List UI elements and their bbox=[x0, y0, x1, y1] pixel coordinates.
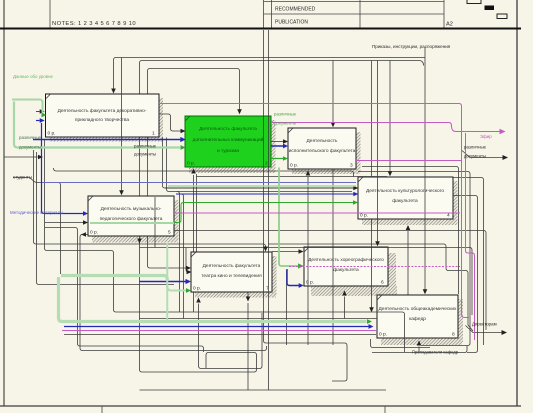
activity box A26 Деятельность хореографического факультета bbox=[304, 247, 388, 286]
wire blue main into A22 left bbox=[33, 137, 186, 142]
header RECOMMENDED row bbox=[275, 7, 316, 13]
wire below A28 rail 1 bbox=[371, 339, 431, 348]
wire mechanism up into A22 bottom bbox=[193, 175, 195, 312]
wire y=247 segment bbox=[140, 248, 473, 316]
activity box A25 shadow bbox=[92, 200, 179, 243]
header A2 node label bbox=[446, 22, 453, 28]
label data level green bbox=[13, 74, 53, 79]
activity box A27 shadow bbox=[195, 256, 277, 298]
wire control top into A21 bbox=[114, 58, 426, 89]
wire magenta rail y=266 dotted bbox=[289, 266, 460, 268]
svg-text:Директорам: Директорам bbox=[472, 322, 497, 327]
header divider at x=50 bbox=[49, 0, 51, 28]
svg-text:3: 3 bbox=[350, 163, 353, 169]
wire blue into A28 left bbox=[64, 324, 374, 329]
sheet frame right border bbox=[516, 0, 518, 406]
svg-text:Эфир: Эфир bbox=[480, 134, 492, 139]
wire blue methodical into A25 left bbox=[42, 123, 89, 216]
label various documents green mid bbox=[274, 112, 297, 126]
svg-text:0 р.: 0 р. bbox=[48, 131, 56, 137]
svg-text:6: 6 bbox=[381, 280, 384, 286]
header context thumbnail child box bbox=[497, 14, 507, 19]
wire A21 output to A22 left bbox=[159, 114, 181, 131]
arrowhead down x=371 bbox=[369, 307, 374, 312]
bottom frame tick right bbox=[384, 406, 386, 413]
activity box A28 Деятельность общеакадемических кафедр bbox=[377, 295, 458, 338]
wire magenta A23 output y=160 bbox=[356, 160, 461, 162]
arrowhead into A28 top bbox=[423, 289, 428, 294]
wire output right various documents bbox=[462, 151, 503, 158]
wire black into A21 left bbox=[36, 109, 45, 114]
activity box A21 Деятельность факультета декоративно-прикладного творчества bbox=[46, 94, 160, 137]
wire boundary vertical x=263 to bottom rail bbox=[264, 30, 348, 381]
arrowhead A21 to A22 bbox=[181, 129, 186, 134]
wire A23 output second bbox=[453, 178, 484, 346]
label various documents left bbox=[19, 135, 42, 150]
svg-text:Деятельность факультета: Деятельность факультета bbox=[199, 126, 257, 132]
wire magenta rail y=214 bbox=[174, 212, 460, 214]
wire A24 output right drop x=470 bbox=[358, 172, 470, 346]
arrowhead into A25 top bbox=[119, 190, 124, 195]
wire mechanism up into A23 bottom bbox=[307, 177, 309, 346]
wire A23 output right drop x=458 bbox=[362, 167, 459, 295]
wire A24 output right drop x=477 bbox=[453, 196, 478, 353]
wire control into A24 top bbox=[389, 61, 391, 172]
wire below A28 rail 2 bbox=[372, 346, 467, 353]
svg-text:дополнительных коммуникаций: дополнительных коммуникаций bbox=[193, 136, 264, 143]
wire output right to directors bbox=[466, 326, 502, 333]
arrowhead into A21 top bbox=[111, 89, 116, 94]
wire blue into A26 left bbox=[287, 269, 304, 288]
wire A25 output rail y=230 to right drop bbox=[174, 231, 486, 331]
wire left bundle y=284 bbox=[37, 152, 175, 285]
activity box A25 Деятельность музыкально-педагогического факультета bbox=[88, 196, 174, 236]
wire blue pair into A24 left 2 bbox=[176, 192, 358, 197]
wire violet-blue rail y=182.5 bbox=[42, 182, 356, 184]
wire vertical x=286 below A22 bbox=[286, 270, 288, 345]
wire A27 output to A26 left bbox=[272, 251, 299, 253]
wire mechanism up into A24 bottom bbox=[407, 231, 409, 295]
svg-text:0 р.: 0 р. bbox=[90, 230, 98, 236]
wire control into A26 top bbox=[377, 61, 379, 242]
arrowhead output various documents bbox=[503, 155, 509, 160]
arrowhead left input bbox=[38, 155, 43, 160]
arrowhead feedback out of A25 left bbox=[81, 232, 86, 237]
arrowhead into A24 top bbox=[388, 171, 393, 176]
label various documents right bbox=[464, 145, 487, 159]
svg-text:различные: различные bbox=[274, 112, 297, 117]
svg-text:документы: документы bbox=[19, 145, 41, 150]
svg-text:документы: документы bbox=[134, 152, 156, 157]
activity box A22 shadow bbox=[189, 120, 276, 173]
svg-text:Деятельность факультета: Деятельность факультета bbox=[203, 263, 261, 269]
svg-text:документы: документы bbox=[464, 154, 486, 159]
arrowhead mech up A28 bbox=[417, 341, 422, 346]
wire green into A21 left bbox=[12, 100, 47, 118]
svg-text:2: 2 bbox=[265, 161, 268, 167]
wire mechanism loop up into A27 bottom bbox=[199, 304, 263, 369]
wire rail y=176 below A22 bbox=[196, 176, 387, 178]
header bottom heavy line bbox=[0, 28, 521, 30]
svg-text:факультета: факультета bbox=[392, 198, 418, 204]
arrowhead A22 to A23 black bbox=[283, 139, 288, 144]
activity box A23 Деятельность исполнительского факультета bbox=[288, 128, 356, 169]
wire call arrow below A27 bbox=[247, 293, 249, 391]
header context thumbnail top box bbox=[467, 0, 481, 4]
label students left bbox=[13, 175, 32, 180]
sheet frame left border bbox=[3, 0, 5, 406]
wire A21 output stub to green rail bbox=[163, 138, 169, 189]
wire control into A25 top bbox=[121, 58, 123, 191]
wire A22 output to A23 left bbox=[271, 141, 284, 143]
wire vertical x=196 below A22 bbox=[196, 174, 198, 252]
wire boundary vertical x=268 bbox=[268, 30, 270, 390]
wire control long top rail y=60 bbox=[140, 61, 424, 373]
arrowhead mech up A22 bbox=[191, 169, 196, 174]
arrowhead mech up A26 bbox=[342, 291, 347, 296]
svg-text:студенты: студенты bbox=[13, 175, 32, 180]
wire green A22 down to A26 left bbox=[279, 168, 304, 269]
svg-text:1: 1 bbox=[152, 131, 155, 137]
wire blue into A27 left bbox=[140, 279, 192, 284]
arrowhead into A27 left black bbox=[186, 266, 191, 271]
svg-text:0 р.: 0 р. bbox=[306, 280, 314, 286]
svg-text:факультета: факультета bbox=[333, 267, 359, 273]
wire left bundle to A27 top bbox=[34, 150, 474, 331]
wire left input arrow bbox=[4, 156, 38, 158]
svg-text:Данные обо уровне: Данные обо уровне bbox=[13, 74, 53, 79]
wire blue into A21 left bbox=[36, 118, 45, 123]
svg-text:5: 5 bbox=[168, 230, 171, 236]
activity box A28 shadow bbox=[381, 299, 463, 345]
svg-text:Приказы, инструкции, распоряже: Приказы, инструкции, распоряжения bbox=[372, 44, 451, 49]
label efir magenta right bbox=[480, 134, 492, 139]
header NOTES text bbox=[52, 21, 136, 27]
wire mechanism up into A26 bottom bbox=[344, 297, 346, 319]
arrowhead into A23 top bbox=[331, 122, 336, 127]
wire green light below A25 bbox=[166, 243, 168, 321]
wire A21 output rail y=191 bbox=[167, 138, 353, 192]
arrowhead call below A27 bbox=[246, 297, 251, 302]
wire orders control into A28 top bbox=[424, 48, 426, 290]
wire bottom mechanism rail y=390 bbox=[140, 389, 387, 391]
svg-text:RECOMMENDED: RECOMMENDED bbox=[275, 7, 316, 13]
arrowhead call below A25 bbox=[137, 239, 142, 244]
wire into A25 left black bbox=[45, 222, 84, 224]
wire black drop into A27 left y=272 bbox=[186, 248, 192, 275]
wire mid verticals from bundle down bbox=[177, 192, 184, 319]
wire blue A22 to A23 bbox=[271, 144, 288, 149]
svg-text:PUBLICATION: PUBLICATION bbox=[275, 20, 308, 26]
svg-text:театра кино и телевидения: театра кино и телевидения bbox=[201, 274, 262, 279]
label teachers bottom bbox=[412, 350, 459, 355]
wire vertical crossing A25 x=155 bbox=[154, 197, 156, 248]
svg-text:Деятельность: Деятельность bbox=[307, 138, 338, 144]
wire control into A22 top and down-left to A27 left bbox=[148, 69, 240, 269]
wire green hook into A27 left bbox=[167, 286, 191, 293]
svg-text:Деятельность общеакадемических: Деятельность общеакадемических bbox=[379, 306, 458, 312]
wire rail y=171 long bbox=[54, 168, 354, 177]
arrowhead mech up A23 bbox=[306, 171, 311, 176]
activity box A21 shadow bbox=[49, 98, 163, 142]
wire magenta rail y=330 bbox=[62, 330, 376, 332]
wire long feedback y=312 with right drop bbox=[45, 140, 405, 352]
wire magenta A22 output y=122 bbox=[271, 123, 506, 135]
wire magenta right vertical x=465 bbox=[466, 133, 475, 340]
svg-text:Методические материалы: Методические материалы bbox=[10, 210, 63, 215]
label methodical materials blue bbox=[10, 210, 63, 215]
wire vertical below A23 x=333 bbox=[332, 170, 334, 346]
wire students input jog bbox=[13, 178, 61, 275]
svg-text:Деятельность музыкально-: Деятельность музыкально- bbox=[101, 206, 162, 212]
arrowhead into A26 top bbox=[375, 241, 380, 246]
wire control into A23 top bbox=[332, 61, 334, 123]
header status table bbox=[264, 0, 445, 28]
activity box A22 Деятельность факультета дополнительных коммуникаций и туризма (green) bbox=[185, 116, 271, 167]
wire rail y=334 bbox=[64, 334, 376, 336]
svg-text:Деятельность хореографического: Деятельность хореографического bbox=[308, 257, 384, 263]
wire green light rail y=187 bbox=[168, 185, 356, 187]
svg-text:0 р.: 0 р. bbox=[379, 332, 387, 338]
wire green light crossing A25 bbox=[90, 222, 174, 224]
wire left drop x=77 to bottom rails bbox=[45, 228, 267, 353]
label directors right bbox=[472, 322, 497, 327]
wire mechanism rail y=318 bbox=[140, 318, 378, 320]
activity box A26 shadow bbox=[311, 253, 397, 296]
svg-text:педагогического факультета: педагогического факультета bbox=[100, 216, 163, 222]
svg-text:0 р.: 0 р. bbox=[193, 286, 201, 292]
wire magenta A21 output y=103 bbox=[159, 104, 469, 318]
wire mechanism up into A28 bottom bbox=[418, 347, 420, 353]
arrowhead into A25 left black bbox=[83, 220, 88, 225]
arrowhead mech up A24 bbox=[406, 225, 411, 230]
bottom frame tick left bbox=[101, 406, 103, 413]
activity box A23 shadow bbox=[292, 132, 361, 174]
svg-text:различные: различные bbox=[19, 135, 42, 140]
svg-text:различные: различные bbox=[134, 144, 157, 149]
wire vertical x=371 down to A28 area bbox=[371, 61, 373, 308]
activity box A24 shadow bbox=[362, 181, 458, 225]
arrowhead into A22 top bbox=[237, 109, 242, 114]
svg-text:различные: различные bbox=[464, 145, 487, 150]
svg-text:Деятельность факультета декора: Деятельность факультета декоративно- bbox=[58, 108, 147, 114]
header PUBLICATION row bbox=[275, 20, 308, 26]
svg-text:0 р.: 0 р. bbox=[290, 163, 298, 169]
label orders instructions top bbox=[372, 44, 451, 49]
svg-text:NOTES: 1 2 3 4 5 6 7 8 9 10: NOTES: 1 2 3 4 5 6 7 8 9 10 bbox=[52, 21, 136, 27]
arrowhead into A26 left black bbox=[299, 249, 304, 254]
wire green A22 to A23 bbox=[271, 156, 288, 161]
svg-text:A2: A2 bbox=[446, 22, 453, 28]
header context thumbnail current node (filled) bbox=[485, 6, 495, 11]
arrowhead mech up A27 bbox=[196, 298, 201, 303]
label various documents mid bbox=[134, 144, 157, 157]
wire green A25 loop to A24 left bbox=[174, 200, 358, 222]
activity box A27 Деятельность факультета театра кино и телевидения bbox=[191, 252, 272, 292]
svg-text:Преподаватели кафедр: Преподаватели кафедр bbox=[412, 350, 459, 355]
svg-text:документы: документы bbox=[274, 121, 296, 126]
arrowhead into A27 top bbox=[263, 247, 268, 252]
svg-text:исполнительского факультета: исполнительского факультета bbox=[289, 148, 356, 154]
wire green light loop into A27 left bbox=[61, 276, 167, 281]
wire green light band down-left into A28 left bbox=[59, 277, 373, 324]
wire green light data rail into A22 left bbox=[14, 102, 186, 150]
bottom frame line bbox=[0, 405, 521, 407]
svg-text:и туризма: и туризма bbox=[217, 149, 239, 154]
wire black into A24 left bbox=[165, 186, 358, 191]
svg-text:8: 8 bbox=[452, 332, 455, 338]
arrowhead output directors bbox=[502, 330, 508, 335]
activity box A24 Деятельность культурологического факультета bbox=[358, 177, 453, 219]
svg-text:0 р.: 0 р. bbox=[187, 161, 195, 167]
svg-text:кафедр: кафедр bbox=[409, 316, 426, 322]
